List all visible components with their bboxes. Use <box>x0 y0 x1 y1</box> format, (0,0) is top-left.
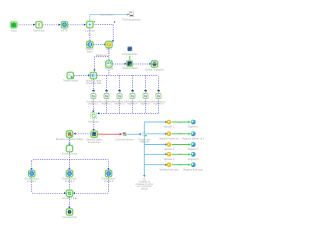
svg-text:map: map <box>178 153 183 156</box>
drop center to B2 <box>69 160 71 169</box>
wire N2 to N3 dashed <box>43 24 59 26</box>
wire B2 down to N19 <box>69 177 71 190</box>
fanout bus top <box>97 76 159 79</box>
svg-text:Elementos: Elementos <box>33 30 45 33</box>
row1 arrow dot <box>165 121 167 123</box>
svg-text:Registro 3: Registro 3 <box>188 148 200 151</box>
wire N5 to N6 dashed <box>93 44 104 46</box>
svg-text:Registro boletin int 2: Registro boletin int 2 <box>182 137 204 140</box>
row3 yellow node <box>167 142 172 147</box>
wire N4 down to N5 <box>89 28 91 41</box>
red arrow into N15 <box>120 133 123 136</box>
corner glyph near bend <box>114 21 116 23</box>
svg-text:map: map <box>178 133 183 136</box>
drop right to B3 <box>108 161 110 169</box>
row node col1 <box>91 90 96 99</box>
row4 green arrow <box>188 153 190 155</box>
arrow into B1 top <box>31 168 33 170</box>
row4 green wire <box>172 153 189 155</box>
svg-text:map: map <box>178 164 183 167</box>
wire NB to NC dashed <box>133 63 149 65</box>
wire N12 down to N14 <box>93 120 95 130</box>
trunk end arrow <box>143 175 145 177</box>
fanout column 1 <box>92 79 94 111</box>
wire N19 down to N20 <box>69 197 71 207</box>
cyan wire N15 to N16 <box>127 133 139 135</box>
row node col2 <box>104 90 109 99</box>
row3 green arrow <box>188 143 190 145</box>
node N3 http action <box>61 22 67 28</box>
node NC sphere <box>151 61 157 67</box>
file icon top right <box>130 11 134 16</box>
svg-text:Variable boletin int: Variable boletin int <box>159 137 179 140</box>
wire NA to NB dashed <box>113 63 125 65</box>
tiny mark at N4 top right <box>94 21 96 23</box>
svg-text:Variable final caso: Variable final caso <box>159 168 179 171</box>
node N14 chart <box>91 131 97 137</box>
svg-text:registro 3: registro 3 <box>115 103 126 106</box>
wire N6 down to NA <box>108 48 110 60</box>
arrow into NC left <box>149 63 151 65</box>
node B2 mail center <box>66 170 72 176</box>
row2 arrow dot <box>165 133 167 135</box>
row3 sphere node <box>191 142 196 147</box>
fanout column 5 <box>145 76 147 114</box>
collect bus bottom <box>99 113 159 115</box>
wire N17 down to bottom bus <box>69 152 71 159</box>
row3 arrow dot <box>165 144 167 146</box>
svg-text:registro 1: registro 1 <box>88 103 99 106</box>
svg-text:Enviar respuesta: Enviar respuesta <box>146 69 165 72</box>
row5 green wire <box>172 164 189 166</box>
green wire ND down to NB <box>129 56 131 61</box>
arrow into N20 top <box>68 207 70 209</box>
node B3 mail right <box>105 170 111 176</box>
svg-text:actual: actual <box>141 188 148 191</box>
arrow into file icon <box>127 14 129 16</box>
arrow into N12 right <box>97 112 99 114</box>
row4 arrow dot <box>165 153 167 155</box>
row1 green arrow <box>188 121 190 123</box>
row5 green arrow <box>188 164 190 166</box>
fanout column 2 <box>106 76 108 114</box>
svg-text:Terminar proceso: Terminar proceso <box>122 19 141 22</box>
fanout column 3 <box>119 76 121 114</box>
node N17 scope <box>66 145 72 151</box>
row1 green wire <box>172 121 189 123</box>
wire B3 down to merge bus <box>75 177 109 193</box>
row node col6 <box>156 90 161 99</box>
row2 branch wire <box>146 133 165 135</box>
row node col4 <box>130 90 135 99</box>
row node col5 <box>143 90 148 99</box>
arrow into N19 right <box>73 192 75 194</box>
svg-text:Comprobacion: Comprobacion <box>122 53 138 56</box>
svg-text:HTTP: HTTP <box>61 30 68 33</box>
row1 branch wire <box>144 121 165 123</box>
red wire N14 to N15 <box>98 133 120 135</box>
svg-text:Enviar correos: Enviar correos <box>62 152 78 155</box>
wire B1 down to merge bus <box>32 177 64 193</box>
node N19 update <box>66 190 72 196</box>
svg-text:Registro 4: Registro 4 <box>188 158 200 161</box>
arrow into N4 <box>84 24 86 26</box>
arrow into N10 top <box>93 69 95 71</box>
node NB dataverse cube 2 <box>127 61 133 67</box>
arrow into N10 left <box>88 74 90 76</box>
wire N3 to N4 dashed <box>68 24 84 26</box>
row2 green arrow <box>188 133 190 135</box>
bottom bus spread <box>32 160 109 162</box>
svg-text:Obtener datos: Obtener datos <box>122 67 138 70</box>
arrow into B3 top <box>107 168 109 170</box>
arrow into B2 top <box>68 168 70 170</box>
svg-text:Establecer: Establecer <box>96 54 107 57</box>
wire N13 down to N17 <box>69 138 71 144</box>
row1 yellow node <box>167 120 172 125</box>
node N4 condition <box>87 21 93 27</box>
arrow into N6 left <box>104 43 106 45</box>
row3 branch wire <box>144 144 165 146</box>
node ND dataverse cube <box>128 46 133 51</box>
svg-text:token: token <box>87 50 94 53</box>
svg-text:Cancelacion: Cancelacion <box>100 13 114 16</box>
svg-text:registro 2: registro 2 <box>102 103 113 106</box>
row2 yellow node <box>167 132 172 137</box>
node N20 terminate <box>66 209 72 215</box>
svg-text:Cancelar flujo: Cancelar flujo <box>62 216 77 219</box>
row2 sphere node <box>191 131 196 136</box>
row4 yellow node <box>167 152 172 157</box>
wire N1 to N2 dashed <box>17 24 34 26</box>
svg-text:Inicio: Inicio <box>11 30 17 33</box>
trunk end icon <box>143 178 145 180</box>
node N2 document action <box>36 22 42 28</box>
node N5 http2 <box>87 41 93 47</box>
row1 sphere node <box>191 120 196 125</box>
drop left to B1 <box>31 161 33 169</box>
wire N9 to N10 dashed <box>74 75 89 77</box>
svg-text:Variable 3: Variable 3 <box>164 148 175 151</box>
svg-text:No: No <box>88 34 92 37</box>
row5 sphere node <box>191 162 196 167</box>
arrow into N17 top <box>68 144 70 146</box>
node NA parse json <box>106 61 112 67</box>
wire N14 left to N13 <box>75 133 91 135</box>
svg-text:de resumen: de resumen <box>88 141 101 144</box>
arrow dot into N16 <box>139 133 141 135</box>
arrow into N3 <box>59 24 61 26</box>
svg-text:Registro 1: Registro 1 <box>188 126 200 129</box>
arrow into N12 top <box>92 111 94 113</box>
arrow into N5 top <box>89 40 91 42</box>
svg-text:map: map <box>178 143 183 146</box>
arrow into NB left <box>125 63 127 65</box>
svg-text:map: map <box>178 121 183 124</box>
svg-text:Analizar: Analizar <box>105 67 114 70</box>
arrow into N13 right <box>74 133 76 135</box>
svg-text:registro 5: registro 5 <box>141 103 152 106</box>
wire NA down to bus <box>108 70 110 76</box>
svg-text:Tiempo actual: Tiempo actual <box>63 80 78 83</box>
svg-text:registro 6: registro 6 <box>154 103 165 106</box>
svg-text:Condicion: Condicion <box>84 30 95 33</box>
arrow down into N6 top <box>112 40 114 42</box>
node N9 compose <box>67 72 73 78</box>
svg-text:Variable 4: Variable 4 <box>164 158 175 161</box>
arrow into N19 left <box>64 192 66 194</box>
row4 sphere node <box>191 152 196 157</box>
arrow into N2 <box>33 24 35 26</box>
row5 branch wire <box>144 164 165 166</box>
row2 green wire <box>172 133 189 135</box>
node N15 office logo <box>123 132 127 135</box>
node N16 white gear <box>142 132 147 137</box>
fanout column 4 <box>132 76 134 114</box>
svg-text:Convertir informe: Convertir informe <box>115 139 134 142</box>
success wire from N4 up right to file icon <box>90 15 127 22</box>
node N1 recurrence trigger <box>10 21 17 28</box>
node N6 variable yellow <box>106 41 112 47</box>
node N10 apply to each <box>90 72 96 78</box>
svg-text:Variable 1: Variable 1 <box>164 126 175 129</box>
row5 yellow node <box>167 162 172 167</box>
node B1 mail left <box>29 170 35 176</box>
row4 branch wire <box>144 153 165 155</box>
row5 arrow dot <box>165 164 167 166</box>
row3 green wire <box>172 144 189 146</box>
node N12 until loop <box>90 113 96 119</box>
wire N6 down left down to N10 <box>95 48 109 69</box>
node N13 package <box>66 131 72 137</box>
svg-text:registro 4: registro 4 <box>128 103 139 106</box>
row node col3 <box>117 90 122 99</box>
fanout column 6 <box>158 78 160 114</box>
svg-text:Registro final caso: Registro final caso <box>183 168 203 171</box>
trunk vertical <box>143 122 145 175</box>
wire N4 right and down into N6 <box>93 25 113 41</box>
arrow into N14 top <box>93 129 95 131</box>
arrow into NA top <box>108 60 110 62</box>
